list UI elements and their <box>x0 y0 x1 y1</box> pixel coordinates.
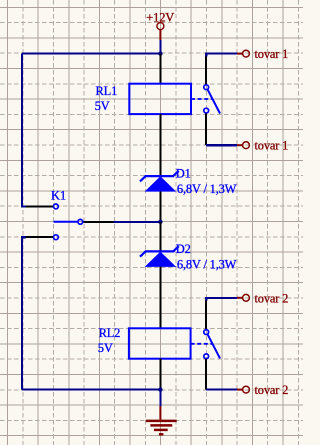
wire bottom rail <box>22 389 160 391</box>
power port +12V <box>146 10 174 40</box>
terminal tovar 1 (bottom) <box>237 139 288 153</box>
svg-text:6,8V / 1,3W: 6,8V / 1,3W <box>177 182 237 196</box>
wire K1 bottom left drop <box>22 237 26 389</box>
svg-text:tovar 1: tovar 1 <box>255 47 289 61</box>
svg-text:K1: K1 <box>51 189 66 203</box>
svg-text:tovar 2: tovar 2 <box>255 383 289 397</box>
terminal tovar 2 (bottom) <box>237 383 288 397</box>
svg-text:6,8V / 1,3W: 6,8V / 1,3W <box>177 257 237 271</box>
wire contact RL2 top to terminal <box>206 297 237 299</box>
junction top <box>158 51 162 55</box>
wire top rail <box>22 53 160 55</box>
relay RL1 coil <box>129 54 191 177</box>
relay RL2 contact <box>191 300 220 390</box>
svg-text:D2: D2 <box>176 242 191 256</box>
terminal tovar 2 (top) <box>237 291 288 305</box>
wire +12V to top junction <box>159 40 161 53</box>
wire K1 common to mid junction <box>114 221 161 223</box>
svg-text:5V: 5V <box>95 99 110 113</box>
svg-text:RL2: RL2 <box>99 326 121 340</box>
svg-text:RL1: RL1 <box>96 84 118 98</box>
switch K1 <box>26 204 113 240</box>
junction mid <box>158 220 162 224</box>
wire contact RL2 bottom to terminal <box>206 389 237 391</box>
wire left drop to K1 top <box>22 54 26 207</box>
zener diode D2 <box>140 222 179 328</box>
svg-text:5V: 5V <box>98 341 113 355</box>
svg-text:D1: D1 <box>176 167 191 181</box>
relay RL2 coil <box>129 328 191 389</box>
relay RL1 contact <box>191 56 220 145</box>
junction bottom <box>158 387 162 391</box>
zener diode D1 <box>140 171 179 222</box>
wire junction to ground <box>159 390 161 406</box>
terminal tovar 1 (top) <box>237 47 288 61</box>
svg-text:tovar 2: tovar 2 <box>255 291 289 305</box>
ground <box>146 406 177 434</box>
svg-text:tovar 1: tovar 1 <box>255 139 289 153</box>
wire contact bottom to terminal <box>206 144 237 146</box>
wire contact top to terminal <box>206 53 237 55</box>
